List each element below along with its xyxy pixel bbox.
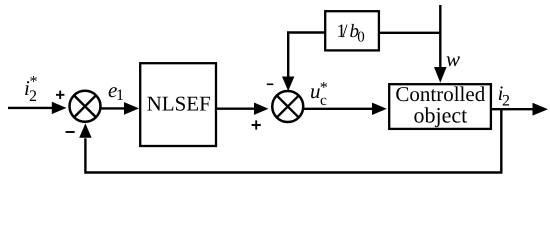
- svg-text:2: 2: [29, 88, 37, 105]
- svg-text:1: 1: [116, 87, 124, 104]
- svg-text:w: w: [446, 47, 460, 71]
- svg-text:object: object: [414, 103, 468, 128]
- svg-text:/: /: [342, 21, 348, 42]
- svg-text:2: 2: [502, 93, 510, 110]
- svg-text:*: *: [320, 80, 328, 97]
- svg-text:NLSEF: NLSEF: [147, 92, 211, 116]
- svg-text:*: *: [30, 73, 38, 90]
- svg-text:0: 0: [357, 29, 365, 45]
